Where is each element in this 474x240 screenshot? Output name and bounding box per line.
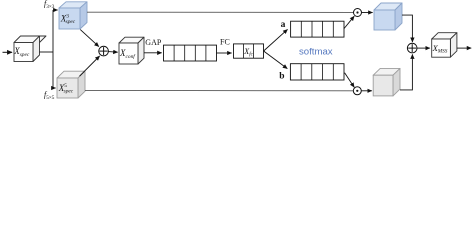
svg-text:GAP: GAP	[145, 38, 162, 47]
node X_spec (input cube)	[13, 36, 46, 62]
wire: skip connection from X5_spec to bottom multiply	[85, 89, 353, 91]
adder (circled plus, left)	[99, 46, 109, 56]
node X_MSS (output cube)	[432, 33, 457, 58]
node weighted gray cube (bottom-right)	[373, 68, 400, 96]
node weighted blue cube (top-right)	[374, 3, 402, 30]
wire: right sum to X_MSS	[417, 47, 430, 49]
wire: bottom multiply to gray cube	[361, 90, 372, 92]
svg-text:f5×5: f5×5	[44, 90, 55, 101]
svg-text:softmax: softmax	[299, 46, 333, 57]
node X3_spec (blue conv cube, top-left)	[59, 2, 87, 29]
node GAP vector (5 cells)	[164, 45, 217, 61]
wire: GAP vector to X_fc	[217, 52, 232, 54]
svg-text:FC: FC	[220, 38, 230, 47]
wire: X_fc fan-out to vector b	[264, 51, 288, 69]
svg-text:b: b	[279, 71, 284, 81]
node attention vector b (5 cells)	[290, 64, 344, 80]
wire: X3_spec diagonal to sum	[80, 30, 99, 47]
node X_conf (fused feature cube)	[119, 37, 144, 64]
wire: gray cube to right sum	[400, 54, 412, 90]
wire: X_fc fan-out to vector a	[264, 29, 288, 51]
node attention vector a (5 cells)	[291, 21, 344, 37]
wire: X_spec to branch junction	[40, 51, 54, 53]
node X_fc (3-cell vector)	[234, 44, 264, 58]
wire: X_conf to GAP vector	[144, 52, 162, 54]
wire: sum to X_conf	[108, 51, 117, 54]
wire: X5_spec diagonal to sum	[80, 56, 100, 76]
wire: input arrow into X_spec	[3, 51, 13, 53]
wire: branch arrow into X3_spec	[53, 9, 58, 11]
adder (circled plus, right)	[407, 43, 417, 53]
wire: blue cube to right sum	[402, 15, 412, 42]
wire: output arrow	[457, 47, 471, 49]
wire: branch arrow into X5_spec	[53, 87, 56, 89]
node X5_spec (gray conv cube, bottom-left)	[57, 71, 85, 98]
wire: vector b to bottom multiply	[345, 73, 355, 87]
wire: vertical branch line	[52, 10, 54, 88]
wire: vector a to top multiply	[344, 16, 354, 28]
svg-text:a: a	[281, 20, 286, 30]
multiplier (circled dot, bottom)	[353, 87, 361, 95]
wire: top multiply to blue cube	[362, 12, 373, 14]
svg-text:f3×3: f3×3	[44, 0, 55, 10]
multiplier (circled dot, top)	[354, 9, 362, 17]
wire: skip connection from X3_spec to top multiply	[87, 11, 353, 13]
